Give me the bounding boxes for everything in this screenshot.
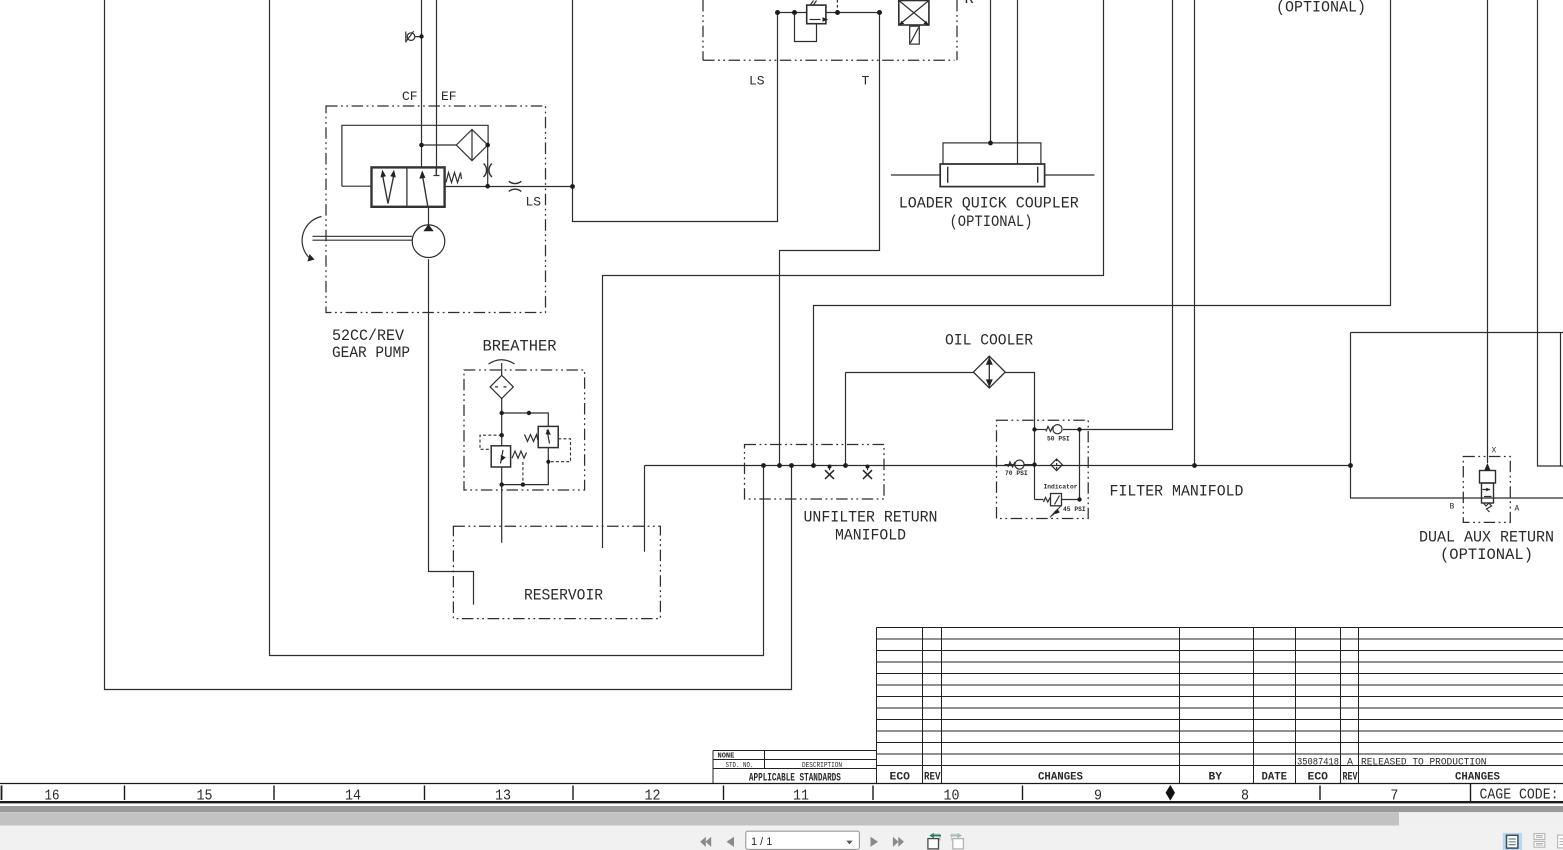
svg-text:ECO: ECO [1308,772,1329,784]
svg-text:A: A [1515,505,1520,514]
svg-text:RELEASED TO PRODUCTION: RELEASED TO PRODUCTION [1361,757,1487,768]
svg-text:NONE: NONE [718,753,735,761]
svg-text:EF: EF [441,89,457,104]
svg-text:REV: REV [1343,772,1358,784]
svg-text:1 / 1: 1 / 1 [751,836,772,848]
svg-text:UNFILTER RETURN: UNFILTER RETURN [804,509,938,527]
svg-text:14: 14 [345,788,361,805]
svg-text:11: 11 [793,788,809,805]
svg-text:DATE: DATE [1262,772,1288,784]
svg-text:CF: CF [402,89,418,104]
svg-text:12: 12 [645,788,661,805]
svg-text:BY: BY [1209,772,1223,784]
svg-text:RESERVOIR: RESERVOIR [524,587,603,605]
svg-text:8: 8 [1241,788,1249,805]
svg-text:Indicator: Indicator [1044,484,1078,491]
svg-text:B: B [1450,503,1455,512]
svg-text:APPLICABLE STANDARDS: APPLICABLE STANDARDS [749,773,841,785]
svg-text:LS: LS [749,74,765,89]
svg-text:10: 10 [944,788,960,805]
svg-text:STD. NO.: STD. NO. [726,762,754,770]
svg-text:7: 7 [1390,788,1398,805]
svg-text:MANIFOLD: MANIFOLD [835,527,906,545]
svg-text:(OPTIONAL): (OPTIONAL) [950,213,1033,231]
svg-text:OIL COOLER: OIL COOLER [945,332,1033,350]
svg-text:BREATHER: BREATHER [483,338,557,356]
svg-text:X: X [1492,447,1497,456]
svg-text:CAGE CODE:: CAGE CODE: [1480,787,1559,804]
svg-text:LOADER QUICK COUPLER: LOADER QUICK COUPLER [899,195,1079,213]
svg-text:(OPTIONAL): (OPTIONAL) [1440,546,1533,564]
svg-text:A: A [1347,757,1353,768]
svg-text:35087418: 35087418 [1297,757,1339,768]
svg-text:52CC/REV: 52CC/REV [332,327,405,345]
svg-text:45 PSI: 45 PSI [1063,506,1086,513]
svg-text:CHANGES: CHANGES [1038,772,1083,784]
svg-text:9: 9 [1094,788,1102,805]
svg-text:CHANGES: CHANGES [1455,772,1500,784]
svg-text:T: T [862,74,870,89]
svg-text:DESCRIPTION: DESCRIPTION [802,762,842,770]
svg-text:50 PSI: 50 PSI [1047,436,1070,443]
svg-text:(OPTIONAL): (OPTIONAL) [1276,0,1366,17]
svg-text:REV: REV [924,772,941,784]
svg-text:16: 16 [45,788,60,805]
svg-text:FILTER MANIFOLD: FILTER MANIFOLD [1110,483,1244,501]
svg-text:R: R [965,0,974,8]
svg-text:13: 13 [495,788,511,805]
svg-text:ECO: ECO [890,772,911,784]
svg-text:LS: LS [526,195,542,210]
svg-text:15: 15 [197,788,213,805]
svg-text:70 PSI: 70 PSI [1005,470,1028,477]
svg-text:DUAL AUX RETURN: DUAL AUX RETURN [1419,529,1554,547]
svg-text:GEAR PUMP: GEAR PUMP [332,344,410,362]
